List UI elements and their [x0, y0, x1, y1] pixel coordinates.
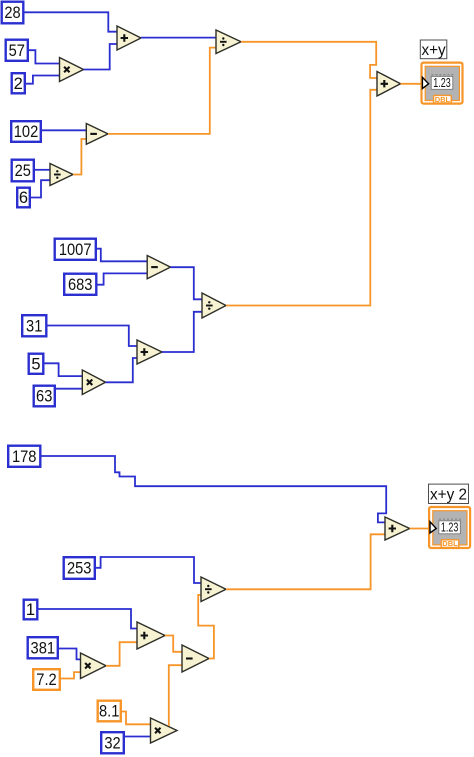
constant 28 — [2, 2, 24, 24]
indicator terminal x+y — [422, 63, 463, 104]
constant 253 — [64, 557, 95, 579]
subtract S2 — [147, 256, 170, 279]
divide D2 — [50, 164, 73, 186]
wire A4 to indicator x+y 2 — [410, 528, 429, 530]
wire 178 to add A4 — [42, 456, 387, 522]
wire D4 to add A4 — [226, 534, 386, 589]
divide D4 — [201, 577, 226, 602]
wire 381 to multiply M3 — [59, 649, 81, 660]
wire 32 to multiply M4 — [125, 736, 151, 738]
wire 28 to add A1 — [25, 12, 118, 31]
svg-text:7.2: 7.2 — [36, 671, 56, 689]
multiply M4 — [151, 718, 178, 743]
divide D1 — [216, 30, 241, 54]
svg-text:x+y: x+y — [421, 42, 446, 59]
constant 381 — [28, 637, 58, 658]
svg-text:178: 178 — [12, 448, 37, 466]
constant 63 — [34, 386, 55, 407]
indicator label x+y 2 — [429, 484, 469, 503]
svg-text:1.23: 1.23 — [441, 519, 459, 534]
wire S1 to divide D1 — [108, 48, 217, 134]
add A5 — [137, 622, 165, 649]
svg-text:1.23: 1.23 — [433, 75, 451, 90]
subtract S3 — [182, 645, 209, 672]
wire D3 to add A2 — [226, 90, 378, 306]
wire M4 to subtract S3 — [169, 665, 183, 726]
svg-text:381: 381 — [31, 640, 56, 658]
multiply M1 — [60, 58, 84, 82]
wire 25 to divide D2 — [35, 169, 51, 171]
multiply M3 — [81, 653, 107, 679]
wire 8.1 to multiply M4 — [122, 712, 151, 725]
multiply M2 — [82, 370, 105, 395]
wire M1 to add A1 — [84, 44, 118, 70]
svg-text:63: 63 — [36, 388, 52, 406]
constant 6 — [17, 188, 30, 208]
wire S2 to divide D3 — [171, 267, 203, 299]
wire 7.2 to multiply M3 — [61, 672, 81, 678]
constant 25 — [12, 160, 34, 182]
svg-text:683: 683 — [68, 276, 93, 294]
constant 2 — [12, 73, 25, 93]
subtract S1 — [86, 124, 108, 145]
svg-text:x+y 2: x+y 2 — [430, 486, 467, 503]
svg-text:8.1: 8.1 — [99, 703, 119, 721]
svg-text:6: 6 — [19, 189, 28, 207]
svg-text:25: 25 — [15, 162, 31, 180]
svg-text:31: 31 — [26, 317, 42, 335]
svg-text:DBL: DBL — [435, 95, 451, 104]
wire 63 to multiply M2 — [56, 388, 83, 390]
wire D2 to subtract S1 — [73, 139, 87, 175]
wire 57 to multiply M1 — [29, 50, 60, 63]
add A4 — [385, 517, 410, 540]
constant 8.1 — [98, 701, 121, 722]
svg-text:32: 32 — [104, 735, 120, 753]
wire D1 to add A2 — [241, 42, 378, 78]
wire A3 to divide D3 — [162, 312, 203, 352]
constant 683 — [64, 274, 96, 295]
add A3 — [137, 340, 162, 364]
constant 1007 — [55, 239, 96, 260]
divide D3 — [202, 293, 226, 318]
svg-text:253: 253 — [67, 560, 92, 578]
wire M2 to add A3 — [106, 358, 138, 382]
constant 7.2 — [33, 669, 60, 690]
constant 31 — [22, 315, 46, 336]
wire 31 to add A3 — [48, 326, 138, 347]
svg-text:DBL: DBL — [442, 539, 458, 548]
wire A1 to divide D1 — [141, 37, 217, 39]
wire 253 to divide D4 — [96, 557, 202, 583]
wire 2 to multiply M1 — [26, 76, 60, 84]
indicator label x+y — [420, 40, 447, 59]
wire S3 to divide D4 — [198, 595, 214, 659]
svg-text:1007: 1007 — [59, 241, 92, 259]
svg-text:28: 28 — [4, 4, 20, 22]
wire A5 to subtract S3 — [165, 636, 183, 652]
svg-text:2: 2 — [14, 75, 23, 93]
wire 102 to subtract S1 — [42, 129, 87, 131]
constant 57 — [6, 40, 28, 61]
wire 5 to multiply M2 — [45, 363, 83, 376]
wire 683 to subtract S2 — [98, 273, 148, 284]
constant 102 — [11, 121, 41, 142]
wire 6 to divide D2 — [31, 180, 51, 197]
svg-text:1: 1 — [26, 601, 35, 619]
wire M3 to add A5 — [106, 642, 138, 666]
svg-text:5: 5 — [31, 355, 40, 373]
constant 32 — [101, 732, 124, 753]
svg-text:102: 102 — [14, 123, 39, 141]
constant 178 — [8, 446, 40, 467]
wire 1007 to subtract S2 — [97, 249, 148, 262]
constant 1 — [24, 600, 38, 620]
wire A2 to indicator x+y — [401, 83, 422, 85]
svg-text:57: 57 — [9, 42, 25, 60]
constant 5 — [29, 354, 44, 374]
wire 1 to add A5 — [39, 609, 138, 629]
add A1 — [117, 26, 141, 50]
indicator terminal x+y 2 — [429, 507, 470, 548]
add A2 — [377, 72, 401, 97]
